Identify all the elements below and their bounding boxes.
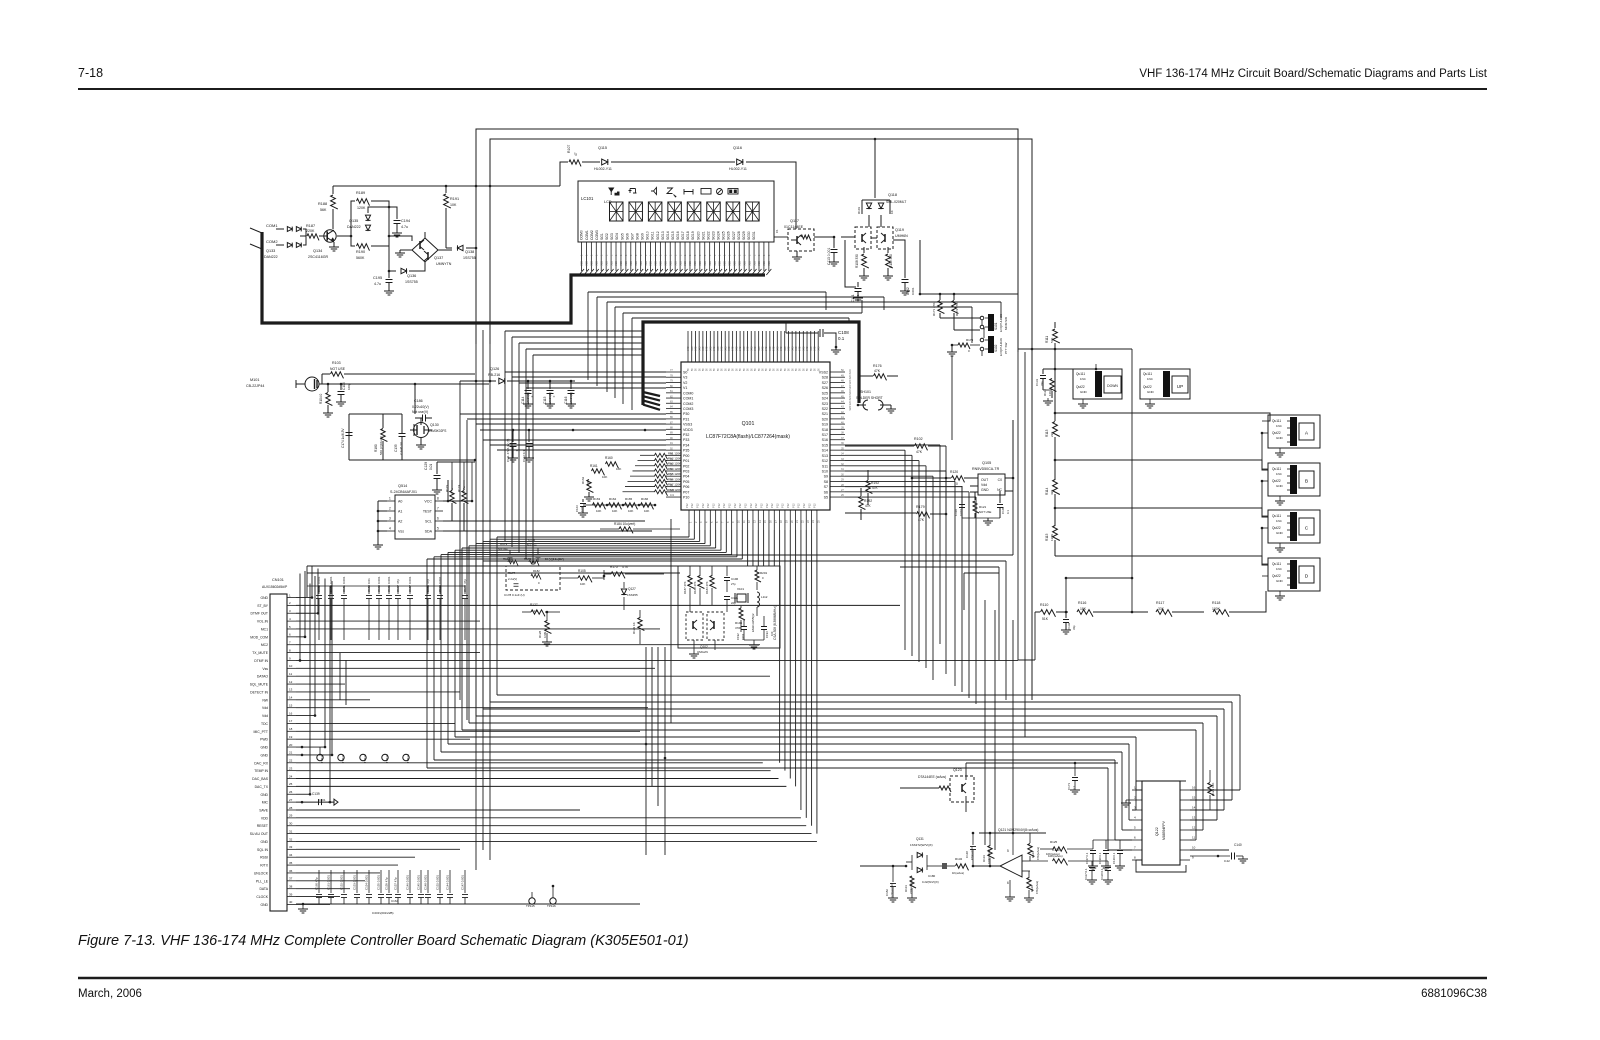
svg-text:P12: P12 [690,503,694,508]
svg-text:R126 10K: R126 10K [1211,783,1215,796]
svg-text:S21: S21 [822,412,828,416]
diode Q135 DAN222 [337,235,351,237]
svg-text:Figure 7-13. VHF 136-174 MHz C: Figure 7-13. VHF 136-174 MHz Complete Co… [78,933,689,949]
svg-text:R128: R128 [538,630,542,638]
svg-text:220K: 220K [306,229,315,233]
svg-text:C152 0.001: C152 0.001 [436,875,440,890]
wire Q101 bottom pin 6 [715,530,717,548]
svg-text:R163: R163 [593,497,601,501]
svg-text:8: 8 [437,497,439,501]
svg-text:M88594FPV: M88594FPV [1162,820,1166,840]
LCD icon antenna [609,188,614,192]
svg-text:S2D: S2D [849,406,852,411]
svg-text:SG12: SG12 [656,231,660,240]
connector A [1268,415,1320,448]
svg-text:101: 101 [670,494,675,497]
ground below cap [1088,865,1098,867]
svg-text:S101: S101 [994,322,998,330]
wire Q101 bottom pin 3 [699,530,701,541]
svg-text:19: 19 [289,735,293,739]
svg-text:30: 30 [289,822,293,826]
svg-text:S43: S43 [702,346,705,351]
wire Q101 bottom pin 16 [768,530,770,566]
svg-text:11: 11 [289,672,292,676]
svg-text:DAC_TX: DAC_TX [255,785,269,789]
svg-text:14: 14 [289,696,293,700]
diode Q138 1SS755 [444,249,452,251]
svg-text:SG16: SG16 [676,231,680,240]
svg-text:SG5: SG5 [620,233,624,240]
capacitor C162 0.001 [318,586,320,594]
ground below C112 [524,457,534,459]
svg-text:RN8 120K: RN8 120K [668,488,681,492]
wire Q101 right pin ext 19 [845,470,946,472]
wire pullup rail [1043,368,1122,370]
svg-text:S1D: S1D [718,261,722,266]
svg-text:Q134: Q134 [313,249,322,253]
svg-text:0.22u10(V): 0.22u10(V) [412,405,429,409]
ground below CN101 [302,904,304,909]
svg-text:12: 12 [1192,826,1196,830]
wire trunk 6 [461,548,463,730]
svg-text:S1D: S1D [634,261,638,266]
svg-text:1N4: 1N4 [1276,519,1282,523]
wire Q101 bottom pin 25 [816,530,818,834]
capacitor C115 47u 6.3V [549,381,551,389]
svg-text:S1D: S1D [678,261,682,266]
svg-text:0.01: 0.01 [429,464,433,470]
resistor R127 124 [531,610,545,617]
svg-text:RN2 120K: RN2 120K [668,457,681,461]
svg-text:VHF 136-174 MHz Circuit Board/: VHF 136-174 MHz Circuit Board/Schematic … [1139,68,1487,80]
svg-text:C135: C135 [394,444,398,452]
resistor R187b 47K [688,576,695,589]
svg-text:S1D: S1D [619,261,623,266]
svg-text:12: 12 [289,680,293,684]
svg-text:S1D: S1D [767,261,771,266]
svg-text:R115: R115 [1045,533,1049,541]
svg-text:PTT SW: PTT SW [1004,343,1008,354]
wire CN101 pin 35 [296,864,398,866]
capacitor C157 47p [397,870,399,893]
svg-text:R162: R162 [581,476,585,484]
svg-text:R108 330: R108 330 [855,254,859,268]
svg-text:UNLOCK: UNLOCK [254,871,269,875]
svg-text:R102: R102 [914,437,923,441]
svg-text:DTMF OUT: DTMF OUT [250,612,268,616]
svg-text:100p: 100p [347,383,351,390]
ground below C132 [1061,629,1071,631]
svg-text:6: 6 [437,517,439,521]
wire thick LCD common bus [262,232,765,323]
svg-text:TP116: TP116 [547,904,556,908]
svg-text:C193: C193 [765,631,769,638]
svg-text:C139 0.1: C139 0.1 [1112,852,1116,864]
svg-text:GND: GND [260,753,268,757]
svg-text:R111: R111 [1045,336,1049,343]
svg-text:C109: C109 [1001,506,1005,514]
wire EEPROM SCL extension [452,520,645,522]
svg-text:S43: S43 [791,346,794,351]
wire CN101 riser bundle top [311,566,313,598]
svg-text:OUT: OUT [981,478,988,482]
svg-text:EM213255Q2: EM213255Q2 [751,613,755,632]
svg-text:Q514: Q514 [398,484,407,488]
svg-text:S2D: S2D [849,374,852,379]
svg-text:32: 32 [289,837,293,841]
svg-text:C0: C0 [998,478,1002,482]
svg-text:S1D: S1D [609,261,613,266]
svg-text:S43: S43 [773,346,776,351]
svg-text:P00: P00 [683,454,689,458]
svg-text:Qu111: Qu111 [1272,467,1281,471]
wire row B [1055,460,1268,470]
svg-text:S43: S43 [762,346,765,351]
svg-text:0.001\(001\22B): 0.001\(001\22B) [372,911,394,915]
svg-text:RN5VD50CA-TR: RN5VD50CA-TR [972,467,1000,471]
svg-text:COM1: COM1 [683,397,693,401]
svg-text:1N4: 1N4 [1147,377,1153,381]
wire CN101 pin 3 [296,612,318,614]
svg-text:SG23: SG23 [712,231,716,240]
svg-text:S43: S43 [780,346,783,351]
wire CN101 pin 8 [296,652,480,654]
svg-text:C131: C131 [1035,378,1039,386]
wire CN101 top bus [307,565,700,567]
wire EEPROM left bus [378,500,387,502]
svg-text:C148 0.001: C148 0.001 [424,875,428,890]
svg-text:0.22(wAOX): 0.22(wAOX) [890,883,894,898]
svg-text:COM1: COM1 [266,223,278,228]
svg-text:16: 16 [1192,786,1196,790]
svg-text:P12: P12 [695,503,699,508]
svg-text:Q137: Q137 [434,256,443,260]
svg-text:10: 10 [289,664,293,668]
svg-text:Qu111: Qu111 [1076,372,1085,376]
svg-text:C146 0.001: C146 0.001 [406,875,410,890]
resistor R171 47K [939,295,941,300]
svg-text:S43: S43 [735,346,738,351]
svg-text:100K(wAos): 100K(wAos) [987,849,991,864]
svg-text:Q133: Q133 [266,249,275,253]
page footer [78,977,1487,979]
svg-text:Qut22: Qut22 [1143,385,1152,389]
svg-text:C145 0.001: C145 0.001 [417,875,421,890]
wire Q101 right pin ext 17 [845,460,919,462]
wire mic rail [319,383,489,385]
svg-text:S15: S15 [822,443,828,447]
svg-text:47u6.3V(E): 47u6.3V(E) [548,392,552,407]
wire CN101 pin 24 [296,778,779,780]
svg-text:24.7u: 24.7u [462,486,466,494]
wire Q105 output [912,477,946,479]
wire CN101 pin 5 [296,628,660,630]
svg-text:S43: S43 [795,346,798,351]
svg-text:HL002-Y11: HL002-Y11 [729,167,747,171]
svg-text:C164: C164 [391,899,399,903]
svg-text:Q138: Q138 [465,250,474,254]
svg-text:2.2u/6.3V: 2.2u/6.3V [399,442,403,455]
svg-text:R182: R182 [533,569,540,573]
svg-text:0.1: 0.1 [1072,786,1076,790]
svg-text:0.22: 0.22 [1224,859,1230,863]
wire trunk 9 [440,555,442,752]
svg-text:P12: P12 [807,503,811,508]
svg-text:SG18: SG18 [686,231,690,240]
capacitor C110 0.001 [961,486,963,503]
svg-text:R161: R161 [590,464,598,468]
svg-text:A0: A0 [398,500,402,504]
capacitor C180 [942,863,947,869]
resistor R126 10K [1208,783,1215,796]
svg-text:S1D: S1D [683,261,687,266]
wire CN101 pin 7 [296,644,760,646]
svg-text:VDD3: VDD3 [683,428,693,432]
svg-text:22K: 22K [1050,432,1054,437]
svg-text:MOM SW: MOM SW [1004,317,1008,330]
capacitor C106 100p [340,384,342,390]
svg-text:R109 330: R109 330 [889,254,893,268]
svg-text:0.22(W/VQX): 0.22(W/VQX) [922,880,939,884]
transistor Q117 01C1144EE [788,229,814,251]
wire CN101 pin 29 [296,817,801,819]
svg-text:S1D: S1D [604,261,608,266]
svg-text:SG6: SG6 [625,233,629,240]
wire CN101 pin 1 [296,597,312,599]
svg-text:Q123: Q123 [953,768,962,772]
capacitor C117 0.1 [1091,861,1093,866]
svg-text:R117: R117 [1156,601,1164,605]
svg-text:R114: R114 [1045,487,1049,495]
svg-text:P12: P12 [738,503,742,508]
svg-text:Qu111: Qu111 [1143,372,1152,376]
svg-text:S12: S12 [822,459,828,463]
wire CN101 pin 15 [296,707,648,709]
svg-text:C114: C114 [521,396,525,404]
svg-text:13: 13 [1192,816,1196,820]
svg-text:33p: 33p [1040,381,1044,386]
resistor R107 [569,160,581,167]
svg-text:TP112: TP112 [363,754,367,763]
ground below cap [1101,865,1111,867]
svg-text:SG22: SG22 [706,231,710,240]
wire Q101 bottom pin 2 [693,530,695,539]
resistor R162 10K [587,480,594,493]
wire CN101 pin 27 [296,801,330,803]
svg-text:S1D: S1D [590,261,594,266]
Q101 left pins [666,371,681,373]
wire trunk 3 [482,541,484,709]
svg-text:MC1: MC1 [261,627,268,631]
svg-text:S28: S28 [822,376,828,380]
resistor R136 47K [1027,878,1034,891]
svg-text:S1D: S1D [614,261,618,266]
svg-text:P03: P03 [683,469,689,473]
svg-text:PWD: PWD [260,738,268,742]
wire CN101 pin 37 [296,880,365,882]
svg-text:RN4 120K: RN4 120K [668,467,681,471]
svg-text:C140: C140 [1234,843,1242,847]
svg-text:S43: S43 [687,346,690,351]
resistor R116 18K [1077,610,1093,617]
wire VDD rail to Q101 [480,429,666,431]
wire Q101 bottom pin 1 [688,530,690,537]
svg-text:S1D: S1D [629,261,633,266]
svg-text:47K(wAos): 47K(wAos) [1036,847,1040,860]
svg-text:R125: R125 [1050,840,1058,844]
svg-text:S43: S43 [728,346,731,351]
svg-text:S43: S43 [750,346,753,351]
svg-text:15: 15 [289,703,293,707]
wire Q101 right pin ext 20 [845,475,933,477]
svg-text:Qut22: Qut22 [1272,479,1281,483]
svg-text:S23: S23 [822,402,828,406]
svg-text:17: 17 [289,719,293,723]
capacitor C131 33p [1042,369,1044,374]
wire CN101 pin 32 [296,840,817,842]
capacitor C111 47u 6.3V [512,430,514,442]
resistor R105 10K [578,576,592,583]
wire Q101 bottom pin 19 [784,530,786,771]
wire A-D chain verticals [1261,433,1263,460]
wire misc verticals [951,356,953,440]
connector DOWN assembly [1073,369,1122,399]
wire Q101 right pin ext 16 [845,454,912,456]
svg-text:GND: GND [1080,390,1088,394]
svg-text:S43: S43 [695,346,698,351]
svg-text:Q135: Q135 [349,219,358,223]
resistor R175 4.7K [611,572,625,579]
svg-text:S1D: S1D [723,261,727,266]
microphone M101 CB-22JP44 [305,377,319,391]
svg-text:16: 16 [289,711,293,715]
capacitor C144 0.001 [449,870,451,893]
svg-text:S43: S43 [769,346,772,351]
svg-text:R171 47K: R171 47K [932,303,936,316]
svg-text:10K: 10K [628,509,633,513]
svg-text:1K(wAos): 1K(wAos) [952,871,964,875]
node COM1 [250,228,262,233]
ground below C182 [888,897,898,899]
ground below opamp [1005,896,1015,898]
svg-text:S13: S13 [822,454,828,458]
svg-text:P12: P12 [749,503,753,508]
svg-text:4.7u: 4.7u [450,488,454,494]
resistor R114 43K [1053,480,1060,495]
resistor R125 10K [1053,847,1067,854]
ground below Q102 [693,640,695,654]
capacitors C137 C138 C139b [1092,840,1094,849]
svg-text:Qut22: Qut22 [1272,574,1281,578]
wire bus2 top link [786,332,812,334]
svg-text:R190: R190 [356,250,365,254]
connector D [1268,558,1320,591]
capacitor C151 0.001 [343,586,345,594]
svg-text:C160 0.001: C160 0.001 [377,576,381,592]
svg-text:UP: UP [1177,384,1183,389]
wire Q101 bottom pin 24 [811,530,813,826]
capacitor C182 0.22 [892,866,894,882]
resistor R121 NOT USE [974,492,976,500]
svg-text:PLL_LE: PLL_LE [256,879,269,883]
capacitor C194 4.7u [389,207,397,219]
svg-text:SG13: SG13 [661,231,665,240]
connector B [1268,463,1320,496]
resistor R134 47K [1028,844,1035,857]
svg-text:P06: P06 [683,485,689,489]
svg-text:10K: 10K [450,203,457,207]
svg-text:S1D: S1D [644,261,648,266]
svg-text:Qu111: Qu111 [1272,514,1281,518]
svg-text:C153 0.001: C153 0.001 [353,875,357,890]
svg-text:S-24CB64AFJ01: S-24CB64AFJ01 [390,490,417,494]
svg-text:22: 22 [289,759,293,763]
svg-text:R189: R189 [356,191,365,195]
svg-text:DATAO: DATAO [257,675,269,679]
wire trunk 10 [433,557,435,760]
svg-text:2SC4116GR: 2SC4116GR [308,255,329,259]
capacitor C147 0.001 [464,870,466,893]
svg-text:R188 47K: R188 47K [693,581,697,594]
ground below R136 [1024,897,1034,899]
wire Q101 right pin ext 23 [845,491,969,493]
switch S101 EVQPUH02K MOM SW [940,317,980,319]
resistor R110 51K [1041,610,1056,617]
Q101 right pins [830,371,845,373]
wire CN101 pin 17 [296,722,455,724]
capacitor C196 27p [726,566,728,576]
svg-text:34: 34 [289,853,293,857]
wire CN101 pin 9 [296,659,1018,661]
wire bundle top of Q101 horizontals [505,330,643,332]
svg-text:LC101: LC101 [581,196,594,201]
resistor R196 470K [739,608,745,620]
svg-text:GND: GND [260,596,268,600]
wire trunk 1 [496,537,498,695]
svg-text:1K: 1K [890,210,894,214]
ground below connector C [1275,547,1285,549]
svg-text:S102: S102 [994,344,998,352]
wire Q101 bottom pin 18 [779,530,781,763]
ground right of SH101 [890,405,892,409]
capacitor C113 0.001 [833,237,835,248]
svg-text:S43: S43 [810,346,813,351]
svg-text:1N4: 1N4 [1276,567,1282,571]
svg-text:P12: P12 [706,503,710,508]
wire CN101 pin 30 [296,825,806,827]
wire Q101 right pin ext 18 [845,465,926,467]
svg-text:10K: 10K [602,475,607,479]
svg-text:SG30: SG30 [747,231,751,240]
wire CN101 pin 39 [296,896,340,898]
svg-text:6.98i: 6.98i [543,632,547,638]
svg-text:Q126: Q126 [490,367,499,371]
capacitor C114 47u 6.3V [527,381,529,389]
svg-text:P12: P12 [717,503,721,508]
ground below C106 [336,401,346,403]
svg-text:47u6.3V(E): 47u6.3V(E) [569,392,573,407]
junction dots CN101 [311,596,314,599]
wire CN101 pin 18 [296,730,640,732]
wire opamp input rail [860,865,906,867]
svg-text:47K: 47K [865,504,872,508]
wire UP chain vertical [1131,349,1133,578]
svg-text:15: 15 [1192,796,1196,800]
wire verticals top-left [475,248,477,381]
svg-text:S1D: S1D [728,261,732,266]
svg-text:SG21: SG21 [701,231,705,240]
svg-text:S11: S11 [822,464,828,468]
